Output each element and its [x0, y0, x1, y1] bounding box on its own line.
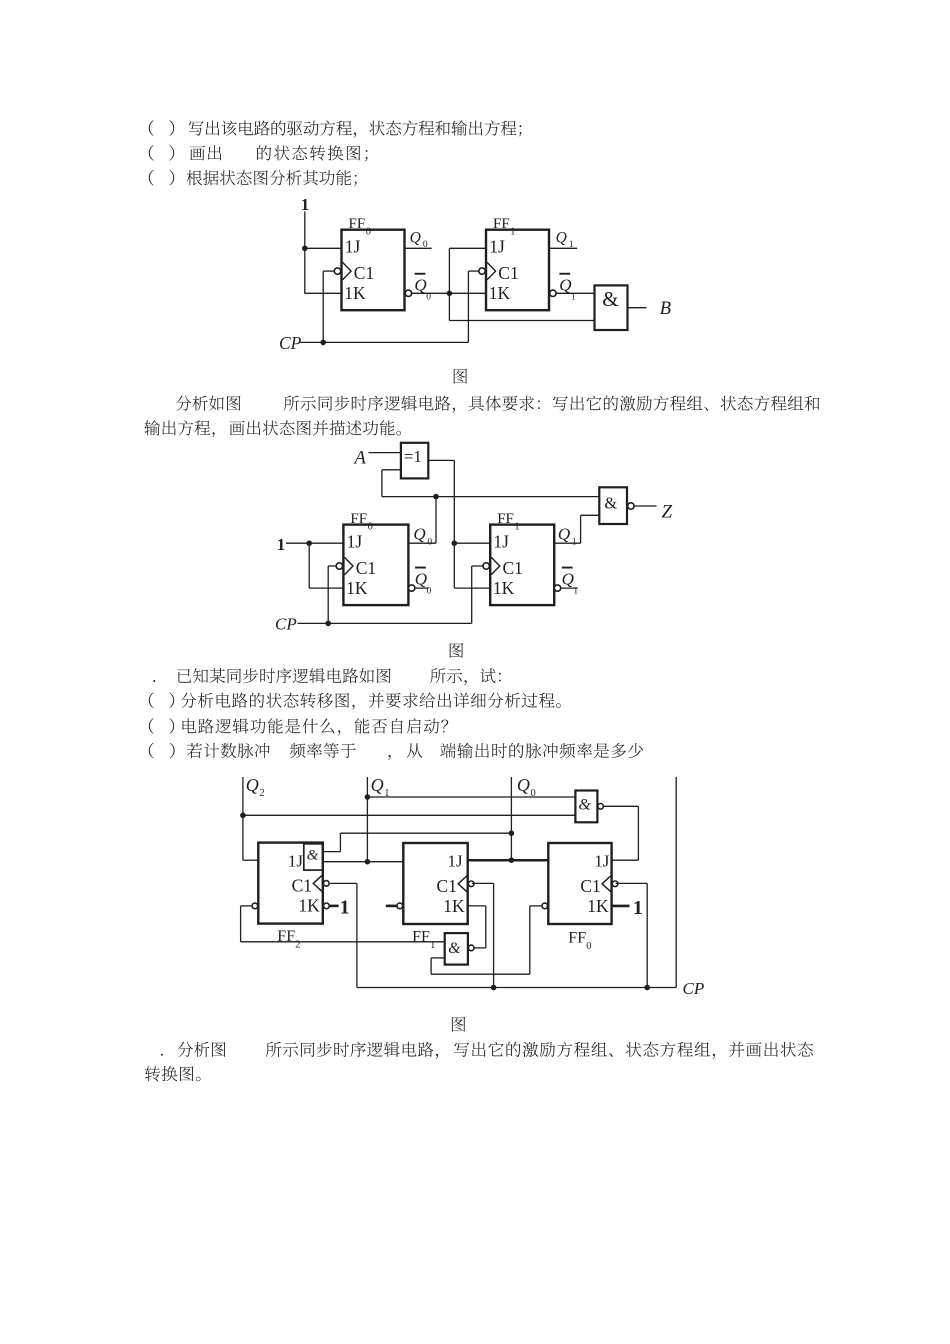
svg-text:FF: FF	[349, 216, 366, 232]
svg-text:Q: Q	[415, 569, 427, 588]
junction: Q2 to top rail	[240, 813, 246, 819]
FF0 label	[568, 930, 591, 952]
flip-flop FF2 body	[258, 843, 323, 924]
svg-text:CP: CP	[279, 333, 302, 353]
junction: Q0 to feedback rail	[433, 494, 439, 500]
label Q1-bar (circuit 2)	[562, 567, 579, 597]
svg-text:1K: 1K	[443, 896, 465, 916]
FF1 clock inversion bubble	[468, 881, 474, 887]
wire: CP up to FF0 clock	[322, 271, 324, 342]
wire: into FF0 clock bubble	[328, 565, 336, 567]
flip-flop FF1 body	[490, 525, 554, 606]
text line	[153, 668, 500, 685]
FF2 label	[277, 928, 300, 950]
svg-text:C1: C1	[354, 263, 374, 283]
junction: CP to FF0 clock	[320, 340, 326, 346]
FF0 Q-bar output bubble	[405, 290, 411, 296]
svg-text:1J: 1J	[345, 237, 361, 257]
svg-text:Q: Q	[562, 569, 574, 588]
svg-text:0: 0	[586, 941, 591, 952]
wire: Q0-bar to 1K of FF1	[411, 292, 486, 294]
svg-text:0: 0	[368, 522, 373, 533]
wire: Q0 output stub	[405, 247, 432, 249]
wire: Q1 output stub	[549, 247, 577, 249]
XOR gate U2 body	[401, 443, 428, 479]
label Q1 (circuit 1)	[556, 230, 574, 251]
wire: into FF1 clock bubble	[468, 270, 478, 272]
FF0 clock edge triangle	[344, 557, 353, 575]
wire: FF0 Q-bar down	[529, 906, 531, 974]
wire: XOR output	[428, 459, 454, 461]
junction: Q0 to FF2 AND input	[509, 830, 515, 836]
text line	[149, 693, 561, 710]
wire: Q1-bar to AND gate upper input	[556, 292, 595, 294]
wire: Q0-bar stub	[415, 587, 429, 589]
FF1 label	[497, 511, 519, 533]
svg-text:1J: 1J	[288, 851, 304, 870]
wire: Q0 vertical	[510, 777, 512, 860]
wire: FF2 Q-bar down	[240, 906, 242, 942]
svg-text:1: 1	[430, 940, 435, 951]
wire: NAND output to Z	[634, 505, 656, 507]
FF0 clock inversion bubble	[612, 881, 618, 887]
wire: FF0 Q-bar to U5 input 2	[431, 973, 530, 975]
FF0 clock inversion bubble	[336, 563, 342, 569]
FF0 label	[350, 511, 372, 533]
FF2 Q-bar output bubble	[252, 903, 258, 909]
wire: into 1J of FF0 (c3)	[612, 859, 639, 861]
svg-text:1J: 1J	[493, 532, 509, 552]
wire: FF2 clock stub	[330, 882, 357, 884]
wire: to AND gate lower input	[449, 320, 594, 322]
wire: FF1 Q-bar stub	[386, 905, 397, 908]
wire: Q1 up to NAND input	[580, 515, 582, 543]
svg-text:FF: FF	[568, 930, 586, 947]
svg-text:C1: C1	[580, 876, 600, 896]
AND gate U1 body	[595, 285, 628, 330]
FF0 clock inversion bubble	[334, 268, 340, 274]
flip-flop FF0 body	[342, 230, 405, 311]
junction: FF1 clock on CP rail	[491, 985, 497, 991]
NAND gate U3 body	[599, 487, 627, 524]
FF0 label	[349, 216, 371, 238]
text line	[149, 718, 448, 735]
flip-flop FF0 body	[343, 525, 408, 606]
svg-text:Q: Q	[413, 525, 425, 544]
NAND U4 output bubble	[598, 804, 604, 810]
wire: XOR output down to J1/K1	[453, 460, 455, 588]
wire: into 1K of FF0	[305, 292, 342, 294]
text line	[149, 145, 368, 161]
label Q1 (circuit 2)	[558, 525, 577, 548]
FF1 Q-bar output bubble	[550, 290, 556, 296]
wire: FF2 Q-bar stub	[241, 905, 252, 907]
wire: FF1 clock stub (c3)	[472, 882, 494, 884]
svg-text:Q: Q	[371, 775, 384, 795]
FF0 Q-bar output bubble (circuit 2)	[409, 585, 415, 591]
wire: Q1 vertical	[366, 777, 368, 862]
svg-text:&: &	[448, 940, 461, 957]
top NAND gate U4 body	[575, 791, 597, 823]
svg-text:1: 1	[340, 896, 350, 918]
FF1 clock inversion bubble	[483, 563, 489, 569]
junction: Q1 to top rail	[365, 794, 371, 800]
wire: small AND output to FF1 K	[475, 947, 486, 949]
junction: FF0 clock on CP rail	[644, 985, 650, 991]
wire: FF0 K to constant 1	[612, 905, 630, 908]
svg-text:&: &	[602, 287, 618, 311]
svg-text:CP: CP	[683, 979, 705, 998]
wire: AND output to B	[628, 307, 647, 309]
FF1 clock edge triangle	[487, 262, 496, 280]
svg-text:1K: 1K	[298, 896, 320, 916]
wire: FF0 Q-bar stub	[530, 905, 542, 907]
wire: Q0 output	[408, 542, 436, 544]
text line	[149, 120, 522, 137]
svg-text:1J: 1J	[489, 237, 505, 257]
FF1 clock edge triangle	[491, 557, 500, 575]
svg-text:1: 1	[569, 240, 574, 250]
wire: into 1J of FF1	[454, 542, 490, 544]
label Q0 (circuit 1)	[410, 230, 428, 251]
junction: J1 branch	[452, 540, 458, 546]
label Q1-bar (circuit 1)	[559, 273, 576, 303]
text line	[145, 420, 402, 437]
svg-text:Q: Q	[517, 775, 530, 795]
text line	[149, 170, 357, 186]
FF2 clock edge triangle	[313, 876, 322, 892]
svg-text:Q: Q	[414, 276, 426, 295]
wire: U4 output down to J0	[637, 806, 639, 860]
svg-text:Q: Q	[556, 230, 567, 247]
svg-text:C1: C1	[356, 558, 376, 578]
wire: FF0 clock down to CP rail	[646, 883, 648, 987]
svg-text:1J: 1J	[447, 851, 463, 870]
junction: Q0 on J1 wire	[509, 857, 515, 863]
wire: FF2 Q output to Q2 vertical	[243, 859, 258, 861]
svg-text:C1: C1	[498, 263, 518, 283]
flip-flop FF0 body	[548, 843, 611, 924]
text line	[149, 743, 643, 760]
wire: CP rail (circuit 2)	[298, 622, 472, 624]
svg-text:1: 1	[633, 897, 643, 919]
wire: Q0 up to rail	[435, 497, 437, 544]
label Q1	[371, 775, 390, 799]
svg-text:&: &	[604, 494, 617, 513]
junction: Q1 vertical meets	[365, 859, 371, 865]
label Q2	[246, 775, 265, 799]
svg-text:FF: FF	[277, 928, 295, 945]
svg-text:1J: 1J	[347, 532, 363, 552]
wire: A to XOR input	[369, 452, 401, 454]
text line	[145, 1066, 201, 1081]
svg-text:Z: Z	[662, 501, 673, 522]
wire: FF0 clock stub (c3)	[616, 882, 648, 884]
small NAND gate U5 body	[445, 933, 468, 965]
svg-text:1K: 1K	[489, 283, 511, 303]
wire: FF1 clock down to CP rail	[493, 883, 495, 987]
wire: Q1/FF1-Q to FF2 AND input 2	[323, 861, 404, 863]
wire: CP up to FF0 clock	[327, 566, 329, 623]
text line	[450, 643, 464, 658]
svg-text:Q: Q	[558, 525, 570, 544]
FF1 label	[412, 929, 435, 951]
FF2 K-input bubble	[324, 903, 330, 909]
svg-text:&: &	[578, 797, 591, 814]
label Q0 (circuit 2)	[413, 525, 432, 548]
svg-text:FF: FF	[350, 511, 367, 527]
FF1 clock edge triangle	[458, 876, 467, 892]
svg-text:2: 2	[259, 788, 264, 799]
wire: CP up to FF1 clock	[467, 271, 469, 342]
FF0 clock edge triangle	[602, 876, 611, 892]
wire: FF2 Q-bar to small AND input 1	[241, 941, 445, 943]
text line	[454, 369, 468, 384]
wire: FF2 AND input 1	[323, 851, 341, 853]
svg-text:1: 1	[301, 195, 310, 214]
NAND U3 output bubble	[628, 503, 634, 509]
svg-text:1: 1	[514, 522, 519, 533]
svg-text:FF: FF	[497, 511, 514, 527]
svg-text:1K: 1K	[344, 283, 366, 303]
wire: down to K0	[308, 543, 310, 588]
junction: Q0-bar branch	[447, 291, 453, 297]
flip-flop FF1 body	[403, 843, 467, 924]
svg-text:A: A	[353, 448, 367, 468]
svg-text:1: 1	[510, 227, 515, 238]
wire: XOR input from feedback	[381, 470, 383, 497]
wire: into NAND lower input	[581, 514, 600, 516]
wire: 1 to J0/K0 vertical	[304, 212, 306, 294]
svg-text:FF: FF	[493, 216, 510, 232]
FF1 clock inversion bubble	[479, 268, 485, 274]
svg-text:0: 0	[426, 293, 431, 303]
wire: U4 output	[604, 805, 639, 807]
svg-text:C1: C1	[503, 558, 523, 578]
wire: into FF0 clock bubble	[323, 270, 334, 272]
wire: U5 input 2 stub	[431, 957, 445, 959]
wire: Q2 to NAND input rail	[243, 814, 576, 816]
flip-flop FF1 body	[486, 230, 549, 311]
svg-text:0: 0	[427, 538, 432, 548]
svg-text:C1: C1	[436, 876, 456, 896]
wire: CP rail (circuit 3)	[357, 987, 676, 989]
text line	[176, 396, 820, 413]
svg-text:1: 1	[277, 535, 286, 554]
svg-text:0: 0	[427, 586, 432, 596]
wire: FF0 Q to FF1 J (bold)	[468, 859, 549, 862]
svg-text:B: B	[660, 299, 671, 319]
svg-text:1K: 1K	[346, 578, 368, 598]
label Q0-bar (circuit 1)	[414, 273, 431, 303]
wire: 1 into 1J of FF0	[286, 542, 343, 544]
wire: Q1 to NAND input rail	[367, 796, 575, 798]
svg-text:1K: 1K	[587, 896, 609, 916]
FF2 J-input AND gate body	[304, 844, 323, 870]
junction: K0 branch	[306, 540, 312, 546]
wire: FF2 K to constant 1	[329, 905, 338, 908]
wire: Q0 feedback rail to NAND	[382, 496, 599, 498]
wire: Q1 output	[554, 542, 580, 544]
wire: Q1-bar stub	[561, 587, 578, 589]
svg-text:1: 1	[571, 293, 576, 303]
wire: branch vertical to J1 and AND gate	[448, 248, 450, 320]
FF1 label	[493, 216, 515, 238]
wire: step up	[339, 833, 341, 851]
svg-text:C1: C1	[292, 875, 312, 895]
junction: J0 branch	[302, 246, 308, 252]
wire: into 1J of FF1	[449, 247, 486, 249]
NAND U5 output bubble	[468, 945, 474, 951]
wire: CP rail vertical right	[675, 777, 677, 988]
label Q0	[517, 775, 536, 799]
wire: U5 input 2 down	[430, 958, 432, 974]
wire: Q0 to FF2 AND input 1	[340, 832, 511, 834]
svg-text:=1: =1	[404, 447, 422, 466]
svg-text:Q: Q	[246, 775, 259, 795]
svg-text:0: 0	[423, 240, 428, 250]
wire: FF1 K down	[485, 906, 487, 948]
svg-text:CP: CP	[275, 614, 297, 633]
wire: into 1K of FF1	[454, 587, 490, 589]
FF0 clock edge triangle	[343, 262, 352, 280]
wire: into FF1 clock bubble	[472, 565, 483, 567]
wire: CP up to FF1 clock	[471, 566, 473, 623]
svg-text:0: 0	[531, 788, 536, 799]
FF1 Q-bar output bubble (circuit 2)	[554, 585, 560, 591]
svg-text:1: 1	[573, 586, 578, 596]
junction: CP to FF0 clock	[325, 621, 331, 627]
wire: into 1K of FF0	[309, 587, 343, 589]
wire: into 1J of FF0	[305, 247, 342, 249]
svg-text:FF: FF	[412, 929, 430, 946]
wire: CP rail	[301, 341, 469, 343]
FF2 clock inversion bubble	[324, 881, 330, 887]
text line	[452, 1017, 466, 1032]
text line	[161, 1042, 813, 1059]
svg-text:0: 0	[366, 227, 371, 238]
svg-text:1K: 1K	[493, 578, 515, 598]
wire: XOR lower input	[382, 469, 401, 471]
FF1 Q-bar output bubble (c3)	[397, 903, 403, 909]
label Q0-bar (circuit 2)	[415, 567, 432, 597]
svg-text:1: 1	[572, 538, 577, 548]
svg-text:Q: Q	[559, 276, 571, 295]
svg-text:1J: 1J	[594, 851, 610, 870]
svg-text:&: &	[307, 847, 319, 863]
svg-text:Q: Q	[410, 230, 421, 247]
wire: FF1 K stub	[468, 905, 486, 907]
wire: Q2 vertical	[242, 777, 244, 860]
FF0 Q-bar output bubble (c3)	[542, 903, 548, 909]
wire: FF2 clock down to CP rail	[356, 883, 358, 987]
